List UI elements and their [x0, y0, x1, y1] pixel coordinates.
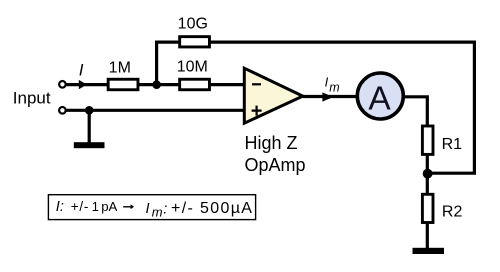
resistor R1 — [422, 126, 433, 154]
node input terminal bottom — [59, 107, 66, 114]
junction node after 1M — [152, 80, 161, 89]
wire R2 to ground — [426, 223, 429, 249]
annotation arrow symbol — [123, 206, 131, 208]
wire to 10G left terminal — [155, 40, 180, 43]
svg-text:R2: R2 — [442, 204, 463, 221]
wire junction to R2 — [426, 173, 429, 195]
current arrow I — [79, 80, 87, 89]
wire ground stub left — [88, 110, 91, 142]
ammeter A — [357, 73, 403, 119]
resistor 1M — [108, 79, 138, 90]
svg-text:1M: 1M — [109, 59, 131, 76]
svg-text:R1: R1 — [442, 136, 463, 153]
svg-text:A: A — [368, 80, 391, 117]
svg-text:10M: 10M — [177, 59, 208, 76]
resistor R2 — [422, 194, 433, 222]
pin - (inverting input) — [252, 83, 261, 85]
ground right — [413, 248, 445, 254]
current arrow Im — [322, 92, 333, 101]
junction node between R1 and R2 — [423, 169, 433, 179]
op-amp U1 — [244, 68, 302, 123]
pin + (noninverting input) — [252, 106, 262, 116]
svg-text:High Z: High Z — [245, 133, 298, 153]
svg-text:I: I — [79, 61, 84, 80]
svg-text:OpAmp: OpAmp — [245, 155, 306, 175]
wire top rail input to 1M — [66, 83, 108, 86]
svg-text:I: I — [325, 75, 329, 90]
svg-text:m: m — [329, 81, 339, 95]
wire ammeter to R1 — [403, 97, 428, 126]
resistor 10G — [180, 37, 210, 47]
svg-text:Input: Input — [13, 88, 51, 107]
node input terminal top — [59, 81, 66, 88]
ground left — [74, 142, 105, 148]
resistor 10M — [180, 79, 210, 90]
wire 1M to 10M — [138, 83, 181, 86]
wire feedback from 10G right, down right side, to R1-R2 junction — [209, 42, 474, 173]
wire R1 to junction — [426, 154, 429, 175]
wire 10M to op-amp inverting input — [209, 83, 246, 86]
wire junction up to 10G row — [155, 42, 158, 85]
annotation box — [48, 195, 255, 220]
wire op-amp output to ammeter — [303, 95, 358, 98]
svg-text:10G: 10G — [178, 16, 208, 33]
wire bottom rail input to op-amp noninverting input — [66, 109, 246, 112]
junction node on bottom rail — [85, 106, 94, 115]
